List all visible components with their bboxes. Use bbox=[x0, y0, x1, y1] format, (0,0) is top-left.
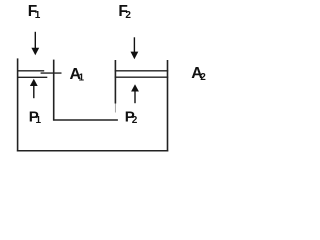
svg-text:1: 1 bbox=[79, 73, 85, 84]
piston A2 bottom line bbox=[115, 76, 169, 78]
label A1 bbox=[70, 66, 85, 84]
label P1 bbox=[29, 108, 42, 126]
channel top edge bbox=[53, 119, 118, 121]
label F1 bbox=[28, 3, 41, 21]
vessel outer left wall bbox=[17, 58, 19, 151]
label F2 bbox=[118, 3, 131, 21]
piston A1 top line bbox=[17, 70, 44, 72]
vessel outer right wall bbox=[167, 60, 169, 152]
vessel outer bottom bbox=[17, 150, 168, 152]
svg-text:2: 2 bbox=[132, 115, 138, 126]
arrow P2 (upward pressure arrow) bbox=[131, 84, 139, 103]
svg-text:1: 1 bbox=[36, 115, 42, 126]
right tube inner wall faint lower part bbox=[114, 104, 116, 113]
svg-text:2: 2 bbox=[200, 72, 206, 83]
piston A1 middle offset line bbox=[41, 72, 62, 74]
arrow F2 (downward force arrow) bbox=[131, 37, 139, 59]
arrow F1 (downward force arrow) bbox=[31, 32, 39, 56]
arrow P1 (upward pressure arrow) bbox=[30, 79, 38, 98]
svg-text:1: 1 bbox=[35, 10, 41, 21]
piston A2 top line bbox=[115, 70, 169, 72]
svg-text:2: 2 bbox=[125, 10, 131, 21]
piston A1 bottom line bbox=[17, 76, 47, 78]
left tube inner (right) wall bbox=[53, 60, 55, 121]
label P2 bbox=[125, 108, 138, 126]
right tube inner (left) wall bbox=[114, 60, 116, 104]
label A2 bbox=[191, 65, 206, 83]
